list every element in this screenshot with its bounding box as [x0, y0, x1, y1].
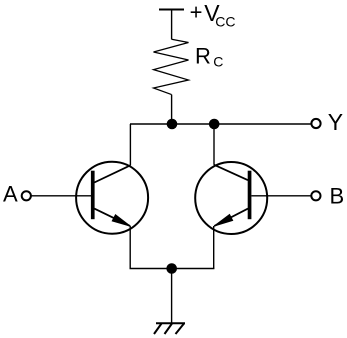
node junction emitters/ground [166, 263, 177, 274]
wire resistor bottom to collector rail [171, 95, 173, 124]
svg-text:A: A [3, 182, 18, 207]
node junction Q2 collector/rail [209, 119, 220, 130]
resistor Rc [154, 39, 189, 94]
wire input A to Q1 base [31, 195, 91, 197]
svg-text:+: + [190, 0, 203, 24]
ground [154, 323, 185, 334]
wire Q2 emitter [213, 226, 215, 269]
wire emitter rail [130, 268, 215, 270]
label +Vcc [190, 0, 236, 29]
wire Q2 base to input B [251, 195, 311, 197]
wire Q2 collector [213, 124, 215, 165]
transistor Q1 (left NPN) [76, 162, 148, 234]
node junction resistor/rail [167, 119, 178, 130]
svg-text:C: C [213, 54, 223, 70]
svg-text:B: B [330, 183, 345, 208]
terminal Y [311, 119, 320, 128]
svg-text:CC: CC [215, 13, 235, 29]
label Rc [195, 43, 223, 69]
wire to ground [171, 269, 173, 324]
wire Q1 collector [129, 124, 131, 165]
wire Vcc bar to resistor top [171, 10, 173, 40]
wire collector rail (node to output Y) [130, 123, 311, 125]
svg-text:R: R [195, 43, 211, 68]
terminal B [311, 191, 320, 200]
wire Q1 emitter [129, 226, 131, 269]
power rail +Vcc bar [159, 9, 184, 11]
transistor Q2 (right NPN) [195, 162, 267, 234]
terminal A [22, 191, 31, 200]
svg-text:Y: Y [328, 109, 343, 135]
